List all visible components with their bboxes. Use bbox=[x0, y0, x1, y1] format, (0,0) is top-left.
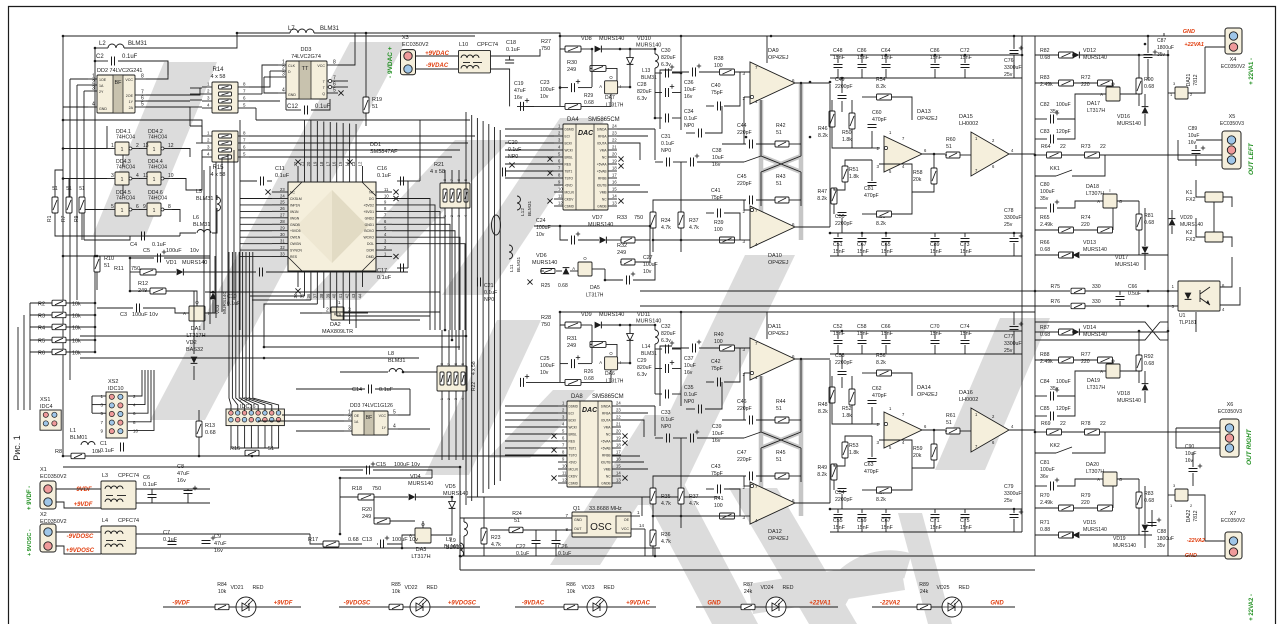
svg-text:IOUTB: IOUTB bbox=[597, 184, 607, 188]
svg-text:25v: 25v bbox=[1004, 498, 1013, 504]
crossing wires bbox=[1035, 322, 1160, 340]
wire bbox=[96, 255, 98, 257]
svg-text:8.2k: 8.2k bbox=[876, 221, 886, 227]
svg-text:-9VDAC: -9VDAC bbox=[522, 601, 545, 607]
svg-text:0.68: 0.68 bbox=[1144, 220, 1154, 226]
svg-text:DA11: DA11 bbox=[768, 324, 781, 330]
svg-text:0.68: 0.68 bbox=[205, 430, 216, 436]
svg-text:8: 8 bbox=[168, 204, 171, 210]
wire bbox=[706, 105, 714, 107]
svg-text:GND2: GND2 bbox=[365, 216, 375, 220]
svg-text:24k: 24k bbox=[920, 589, 929, 595]
wire bbox=[1021, 36, 1023, 256]
wire bbox=[964, 55, 966, 63]
svg-text:R77: R77 bbox=[1081, 352, 1091, 358]
svg-text:6.3v: 6.3v bbox=[661, 62, 671, 68]
wire bbox=[1013, 509, 1015, 513]
svg-text:EC0350V2: EC0350V2 bbox=[402, 42, 429, 48]
svg-text:2OE: 2OE bbox=[126, 94, 134, 98]
wire bbox=[490, 529, 509, 531]
svg-text:KK2: KK2 bbox=[1050, 443, 1060, 449]
wire bbox=[722, 475, 746, 477]
pin 5 bbox=[554, 156, 563, 158]
svg-text:D: D bbox=[288, 70, 291, 74]
svg-text:470pF: 470pF bbox=[864, 193, 879, 199]
svg-text:-22VA2: -22VA2 bbox=[880, 601, 901, 607]
capacitor C22 bbox=[532, 540, 541, 542]
svg-text:R36: R36 bbox=[661, 532, 671, 538]
wire bbox=[934, 55, 936, 63]
wire bbox=[766, 332, 768, 339]
svg-text:C13: C13 bbox=[362, 537, 372, 543]
svg-text:0.68: 0.68 bbox=[1040, 247, 1050, 253]
svg-text:LT317H: LT317H bbox=[1087, 108, 1105, 114]
pin 4 bbox=[376, 236, 392, 238]
svg-text:249: 249 bbox=[567, 67, 576, 73]
svg-text:5: 5 bbox=[141, 102, 144, 108]
svg-text:KK1: KK1 bbox=[1050, 166, 1060, 172]
IC DA2 MAX809LTR bbox=[331, 307, 344, 320]
wire bundle DD1 top bbox=[303, 120, 305, 166]
svg-text:DA12: DA12 bbox=[768, 529, 782, 535]
wire bbox=[1013, 233, 1015, 237]
resistor R35 bbox=[650, 488, 656, 504]
wire bbox=[1144, 94, 1146, 106]
svg-text:MURS140: MURS140 bbox=[1180, 222, 1203, 228]
svg-text:R84: R84 bbox=[217, 582, 227, 588]
svg-text:OP42EJ: OP42EJ bbox=[768, 331, 789, 337]
svg-text:R66: R66 bbox=[1040, 240, 1050, 246]
svg-text:R48: R48 bbox=[818, 402, 828, 408]
wire bbox=[70, 78, 88, 80]
wire bbox=[1035, 331, 1059, 333]
svg-text:NC: NC bbox=[290, 191, 295, 195]
svg-text:C43: C43 bbox=[711, 464, 721, 470]
diode VD1 bbox=[177, 269, 184, 276]
wire bbox=[885, 509, 887, 513]
resistor R36 bbox=[650, 530, 656, 546]
svg-text:1: 1 bbox=[121, 177, 124, 183]
svg-text:SYNCN: SYNCN bbox=[290, 249, 302, 253]
svg-text:C26: C26 bbox=[558, 544, 568, 550]
wire bbox=[640, 305, 1070, 307]
wire bbox=[172, 210, 180, 223]
pin 7 bbox=[135, 94, 146, 96]
svg-text:GND: GND bbox=[574, 518, 582, 522]
svg-text:4: 4 bbox=[282, 88, 285, 94]
pin 17 bbox=[608, 177, 617, 179]
svg-text:C45: C45 bbox=[737, 174, 747, 180]
wire bbox=[672, 71, 689, 73]
pin 28 bbox=[272, 223, 288, 225]
pin 43 bbox=[355, 271, 357, 287]
svg-text:R89: R89 bbox=[919, 582, 929, 588]
svg-text:31: 31 bbox=[280, 238, 285, 243]
pin 14 bbox=[608, 198, 617, 200]
svg-text:74HC04: 74HC04 bbox=[148, 165, 167, 171]
capacitor C12 bbox=[304, 106, 306, 115]
svg-text:470pF: 470pF bbox=[872, 117, 887, 123]
svg-text:NP0: NP0 bbox=[684, 399, 694, 405]
wire bbox=[30, 339, 52, 341]
wire bbox=[444, 225, 446, 330]
wire bbox=[517, 105, 534, 107]
svg-text:C81: C81 bbox=[864, 186, 874, 192]
wire bbox=[1195, 145, 1197, 149]
svg-text:3300uF: 3300uF bbox=[1004, 341, 1022, 347]
wire bbox=[63, 255, 210, 257]
svg-text:C2: C2 bbox=[96, 54, 104, 60]
svg-text:+5VD2: +5VD2 bbox=[364, 203, 375, 207]
wire bbox=[706, 488, 714, 490]
wire bbox=[861, 331, 863, 339]
svg-text:L2: L2 bbox=[99, 41, 106, 47]
svg-text:VD7: VD7 bbox=[592, 215, 603, 221]
svg-text:74HC04: 74HC04 bbox=[148, 196, 167, 202]
capacitor C2 bbox=[111, 57, 113, 66]
svg-text:IOUTA: IOUTA bbox=[601, 419, 611, 423]
svg-text:VMA: VMA bbox=[604, 426, 612, 430]
svg-text:VCC: VCC bbox=[379, 414, 387, 418]
svg-text:RED: RED bbox=[604, 585, 615, 591]
svg-text:R87: R87 bbox=[1040, 325, 1050, 331]
svg-text:10: 10 bbox=[562, 464, 567, 469]
wire bbox=[451, 497, 453, 501]
svg-text:LT317H: LT317H bbox=[606, 103, 624, 109]
svg-text:R82: R82 bbox=[1040, 48, 1050, 54]
svg-text:470pF: 470pF bbox=[864, 469, 879, 475]
wire bbox=[136, 488, 210, 490]
svg-text:750: 750 bbox=[541, 322, 550, 328]
wire bbox=[654, 129, 656, 160]
svg-text:23: 23 bbox=[612, 131, 617, 136]
wire bbox=[1138, 479, 1140, 492]
svg-text:DD1: DD1 bbox=[370, 142, 381, 148]
resistor R19 bbox=[363, 97, 369, 113]
svg-text:1: 1 bbox=[443, 215, 447, 217]
svg-text:R39: R39 bbox=[714, 220, 724, 226]
wire bbox=[1151, 510, 1153, 527]
wire bbox=[1220, 257, 1232, 287]
svg-text:R1: R1 bbox=[47, 215, 53, 222]
pin 13 bbox=[355, 166, 357, 182]
svg-text:X6: X6 bbox=[1227, 402, 1234, 408]
wire DAC A left bundle bbox=[505, 128, 554, 130]
svg-text:8: 8 bbox=[333, 60, 336, 66]
pin 15 bbox=[342, 166, 344, 182]
svg-text:R73: R73 bbox=[1081, 144, 1091, 150]
wire bbox=[1035, 229, 1059, 231]
wire bbox=[655, 117, 662, 119]
svg-text:0.1uF: 0.1uF bbox=[143, 482, 158, 488]
svg-text:100uF: 100uF bbox=[166, 248, 182, 254]
svg-text:VMB: VMB bbox=[604, 468, 611, 472]
pin 1 bbox=[554, 128, 563, 130]
pin 12 bbox=[362, 166, 364, 182]
svg-text:R53: R53 bbox=[849, 443, 859, 449]
wire bbox=[240, 180, 257, 182]
regulator DA6 LT317H bbox=[605, 357, 618, 370]
svg-text:15nF: 15nF bbox=[833, 55, 845, 61]
svg-text:BAS32: BAS32 bbox=[186, 347, 203, 353]
svg-text:2: 2 bbox=[326, 308, 329, 314]
pin 1 bbox=[88, 78, 97, 80]
svg-text:LT317H: LT317H bbox=[1087, 385, 1105, 391]
svg-text:0.1uF: 0.1uF bbox=[684, 116, 697, 122]
svg-text:40: 40 bbox=[332, 293, 337, 298]
wire bbox=[249, 135, 475, 137]
resistor R90 bbox=[1136, 78, 1142, 94]
wire bus bbox=[80, 357, 419, 359]
svg-text:DOL: DOL bbox=[367, 242, 374, 246]
wire bbox=[340, 477, 432, 479]
resistor R51 bbox=[842, 166, 848, 182]
wire bbox=[654, 406, 656, 436]
svg-text:NC: NC bbox=[602, 156, 607, 160]
svg-text:13: 13 bbox=[612, 201, 617, 206]
wire bbox=[1167, 50, 1169, 255]
pin 13 bbox=[612, 482, 621, 484]
connector X7 EC0350V2 bbox=[1225, 532, 1242, 559]
svg-text:3: 3 bbox=[454, 398, 458, 400]
svg-text:100uF: 100uF bbox=[536, 225, 551, 231]
svg-text:R86: R86 bbox=[566, 582, 576, 588]
svg-text:1A: 1A bbox=[99, 84, 104, 88]
pin 6 bbox=[558, 440, 567, 442]
svg-text:VD14: VD14 bbox=[1083, 325, 1096, 331]
svg-text:A: A bbox=[183, 311, 186, 316]
svg-text:R90: R90 bbox=[1144, 77, 1154, 83]
svg-text:10v: 10v bbox=[536, 232, 545, 238]
svg-text:120pF: 120pF bbox=[1056, 129, 1071, 135]
pin 11 bbox=[558, 475, 567, 477]
wire XS2 left pins bbox=[92, 395, 106, 397]
pin 4 bbox=[554, 149, 563, 151]
svg-text:22: 22 bbox=[616, 415, 621, 420]
svg-text:20: 20 bbox=[306, 161, 311, 166]
svg-text:DA20: DA20 bbox=[1086, 462, 1099, 468]
svg-text:VD8: VD8 bbox=[581, 36, 592, 42]
wire bbox=[1035, 254, 1059, 256]
wire bbox=[95, 47, 108, 49]
pin 24 bbox=[612, 405, 621, 407]
pin 23 bbox=[608, 135, 617, 137]
svg-text:0.68: 0.68 bbox=[1040, 55, 1050, 61]
svg-text:RFBA: RFBA bbox=[602, 412, 611, 416]
wire bbox=[95, 60, 108, 62]
svg-text:8: 8 bbox=[141, 74, 144, 80]
pin 4 bbox=[558, 426, 567, 428]
svg-text:2Y: 2Y bbox=[99, 90, 104, 94]
svg-text:820uF: 820uF bbox=[637, 365, 652, 371]
svg-text:17: 17 bbox=[616, 450, 621, 455]
pin 5 bbox=[135, 106, 146, 108]
wire bbox=[190, 126, 202, 143]
pin 3 bbox=[554, 142, 563, 144]
pin 2 bbox=[554, 135, 563, 137]
svg-text:WCKI: WCKI bbox=[569, 426, 577, 430]
pin 9 bbox=[376, 204, 392, 206]
wire bbox=[1148, 35, 1225, 37]
svg-text:RES: RES bbox=[569, 440, 576, 444]
svg-text:C19: C19 bbox=[514, 81, 524, 87]
svg-text:GND: GND bbox=[990, 601, 1004, 607]
svg-text:EC0350V2: EC0350V2 bbox=[40, 474, 67, 480]
wire bbox=[340, 469, 363, 471]
svg-text:OE: OE bbox=[354, 414, 360, 418]
wire bbox=[460, 517, 572, 519]
svg-text:OUT RIGHT: OUT RIGHT bbox=[1246, 428, 1253, 465]
svg-text:A: A bbox=[599, 84, 602, 89]
svg-text:74HC04: 74HC04 bbox=[148, 135, 167, 141]
svg-text:R2: R2 bbox=[38, 302, 45, 308]
svg-text:CLK: CLK bbox=[288, 64, 296, 68]
svg-text:6: 6 bbox=[454, 363, 458, 365]
svg-text:1: 1 bbox=[153, 208, 156, 214]
wire bbox=[560, 226, 568, 240]
svg-text:NP0: NP0 bbox=[684, 123, 694, 129]
svg-text:R79: R79 bbox=[1081, 493, 1091, 499]
svg-text:100uF 10v: 100uF 10v bbox=[392, 537, 418, 543]
svg-text:I: I bbox=[208, 311, 209, 316]
svg-text:1Y: 1Y bbox=[129, 100, 134, 104]
svg-text:R11: R11 bbox=[114, 266, 124, 272]
wire bbox=[460, 569, 1035, 571]
wire bbox=[339, 606, 480, 608]
svg-text:16v: 16v bbox=[1188, 140, 1197, 146]
svg-text:MURS140: MURS140 bbox=[1083, 332, 1107, 338]
svg-text:CKDV: CKDV bbox=[569, 475, 579, 479]
svg-text:VD13: VD13 bbox=[1083, 240, 1096, 246]
wire bbox=[416, 68, 458, 70]
svg-text:16v: 16v bbox=[712, 162, 721, 168]
svg-text:+9VDOSC: +9VDOSC bbox=[66, 548, 95, 554]
svg-text:R14: R14 bbox=[212, 67, 224, 73]
svg-text:C47: C47 bbox=[737, 450, 747, 456]
svg-text:GND1: GND1 bbox=[365, 223, 375, 227]
wire bbox=[55, 170, 63, 197]
wire bbox=[172, 150, 202, 190]
wire bbox=[964, 331, 966, 339]
svg-text:MURS140: MURS140 bbox=[636, 319, 661, 325]
svg-text:23: 23 bbox=[616, 408, 621, 413]
svg-text:C4: C4 bbox=[130, 242, 137, 248]
pin 13 bbox=[608, 205, 617, 207]
svg-text:3: 3 bbox=[92, 86, 95, 92]
svg-text:100uF: 100uF bbox=[643, 262, 658, 268]
svg-text:VD9: VD9 bbox=[581, 312, 592, 318]
svg-text:35v: 35v bbox=[1050, 386, 1059, 392]
svg-text:15: 15 bbox=[612, 187, 617, 192]
svg-text:GNDB: GNDB bbox=[290, 223, 301, 227]
svg-text:L1: L1 bbox=[70, 428, 76, 434]
svg-text:820uF: 820uF bbox=[661, 55, 676, 61]
wire bbox=[841, 218, 843, 233]
wire bbox=[146, 61, 168, 79]
wire bbox=[591, 325, 593, 363]
svg-text:15nF: 15nF bbox=[930, 525, 942, 531]
svg-text:750.: 750. bbox=[131, 266, 142, 272]
svg-text:R21: R21 bbox=[434, 162, 444, 168]
svg-text:+ 22VA2 -: + 22VA2 - bbox=[1249, 594, 1255, 621]
svg-text:R7: R7 bbox=[61, 215, 67, 222]
svg-text:+5VD: +5VD bbox=[569, 461, 578, 465]
svg-text:19: 19 bbox=[612, 159, 617, 164]
svg-text:24: 24 bbox=[616, 401, 621, 406]
svg-text:12: 12 bbox=[558, 201, 563, 206]
wire bbox=[463, 518, 465, 522]
svg-text:MCLKI: MCLKI bbox=[569, 468, 579, 472]
capacitor C10 bbox=[259, 268, 261, 277]
svg-text:DA19: DA19 bbox=[1087, 378, 1100, 384]
svg-text:VD12: VD12 bbox=[1083, 48, 1096, 54]
svg-text:20k: 20k bbox=[913, 177, 922, 183]
wire XS2 right pins bbox=[128, 370, 142, 396]
resistor R1 bbox=[52, 197, 58, 213]
svg-text:MURS140: MURS140 bbox=[532, 260, 557, 266]
regulator DA19 LT317H bbox=[1106, 364, 1120, 378]
svg-text:0.5uF: 0.5uF bbox=[1128, 291, 1141, 297]
wire bbox=[722, 143, 746, 145]
svg-text:L7: L7 bbox=[288, 26, 295, 32]
svg-text:+9VDAC: +9VDAC bbox=[626, 601, 651, 607]
pin 6 bbox=[135, 100, 146, 102]
pin 10 bbox=[376, 197, 392, 199]
pin 23 bbox=[612, 412, 621, 414]
svg-text:R51: R51 bbox=[849, 167, 859, 173]
svg-text:BF: BF bbox=[114, 80, 122, 86]
svg-text:10k: 10k bbox=[92, 449, 101, 455]
wire bbox=[879, 439, 884, 441]
wire bbox=[63, 120, 202, 136]
pin 35 bbox=[303, 271, 305, 287]
svg-text:15nF: 15nF bbox=[930, 331, 942, 337]
svg-text:21: 21 bbox=[616, 422, 621, 427]
svg-text:C9: C9 bbox=[214, 534, 221, 540]
svg-text:2: 2 bbox=[136, 143, 139, 149]
wire bbox=[198, 410, 200, 421]
svg-text:10k: 10k bbox=[218, 589, 227, 595]
svg-text:1: 1 bbox=[121, 208, 124, 214]
wire bbox=[602, 48, 630, 50]
wire bbox=[249, 79, 270, 87]
svg-text:GND: GND bbox=[99, 107, 107, 111]
svg-text:1: 1 bbox=[153, 177, 156, 183]
svg-text:10: 10 bbox=[133, 428, 139, 433]
no connect mark bbox=[338, 90, 343, 95]
svg-text:A: A bbox=[1100, 92, 1103, 97]
wire bbox=[934, 233, 936, 237]
wire bbox=[654, 548, 656, 556]
wire bbox=[1035, 138, 1047, 140]
svg-text:C28: C28 bbox=[637, 82, 647, 88]
svg-text:GNDB: GNDB bbox=[601, 482, 610, 486]
wire rail mid-bottom bbox=[830, 508, 1022, 510]
wire bbox=[641, 497, 643, 516]
svg-text:+22VA1: +22VA1 bbox=[1184, 42, 1204, 48]
svg-text:10uF: 10uF bbox=[712, 155, 724, 161]
svg-text:51: 51 bbox=[946, 420, 952, 426]
svg-text:MURS140: MURS140 bbox=[1113, 543, 1136, 549]
junction dots bbox=[62, 35, 65, 38]
svg-text:C35: C35 bbox=[684, 385, 694, 391]
svg-text:7: 7 bbox=[450, 179, 454, 181]
pin 16 bbox=[336, 166, 338, 182]
svg-text:32: 32 bbox=[280, 245, 285, 250]
svg-text:R31: R31 bbox=[567, 336, 577, 342]
pin 1 bbox=[344, 414, 352, 416]
svg-text:I: I bbox=[620, 360, 621, 365]
